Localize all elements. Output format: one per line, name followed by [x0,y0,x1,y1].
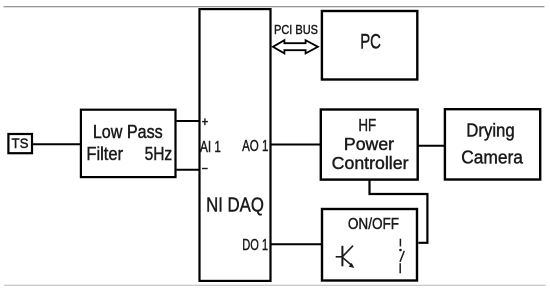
svg-text:PCI BUS: PCI BUS [274,22,318,37]
svg-text:Camera: Camera [461,146,523,167]
svg-text:Controller: Controller [332,153,409,173]
svg-text:Low Pass: Low Pass [93,122,163,142]
svg-text:HF: HF [358,115,376,135]
svg-text:5Hz: 5Hz [145,144,173,164]
svg-text:NI DAQ: NI DAQ [206,195,264,217]
svg-text:DO 1: DO 1 [242,237,268,254]
svg-text:PC: PC [360,31,381,54]
svg-text:ON/OFF: ON/OFF [348,216,399,233]
svg-text:Power: Power [344,134,394,154]
svg-text:AO 1: AO 1 [242,138,268,155]
svg-text:Filter: Filter [86,144,123,164]
svg-text:Drying: Drying [466,120,514,141]
svg-text:TS: TS [12,136,29,151]
svg-text:AI 1: AI 1 [200,139,221,156]
